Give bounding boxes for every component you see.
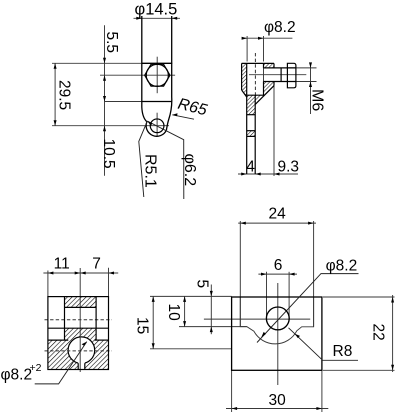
svg-text:15: 15 (133, 317, 150, 334)
svg-text:R5.1: R5.1 (141, 154, 158, 188)
svg-text:φ14.5: φ14.5 (135, 1, 178, 19)
svg-text:7: 7 (92, 256, 101, 273)
svg-text:φ8.2: φ8.2 (1, 367, 33, 384)
svg-text:10: 10 (165, 304, 182, 322)
svg-text:11: 11 (54, 256, 70, 273)
svg-text:24: 24 (269, 206, 287, 223)
svg-text:22: 22 (369, 324, 386, 341)
svg-text:6: 6 (274, 257, 283, 274)
svg-text:M6: M6 (308, 89, 325, 111)
svg-text:4: 4 (246, 158, 255, 175)
svg-text:φ8.2: φ8.2 (264, 19, 296, 36)
svg-text:φ8.2: φ8.2 (326, 258, 358, 275)
svg-text:30: 30 (269, 392, 287, 409)
svg-text:9.3: 9.3 (278, 158, 300, 175)
svg-text:29.5: 29.5 (56, 80, 73, 110)
svg-text:5: 5 (194, 280, 211, 289)
svg-text:10.5: 10.5 (100, 139, 117, 169)
svg-text:R8: R8 (333, 343, 353, 360)
svg-text:5.5: 5.5 (103, 32, 120, 54)
svg-text:φ6.2: φ6.2 (181, 154, 198, 187)
svg-text:+2: +2 (30, 362, 42, 374)
